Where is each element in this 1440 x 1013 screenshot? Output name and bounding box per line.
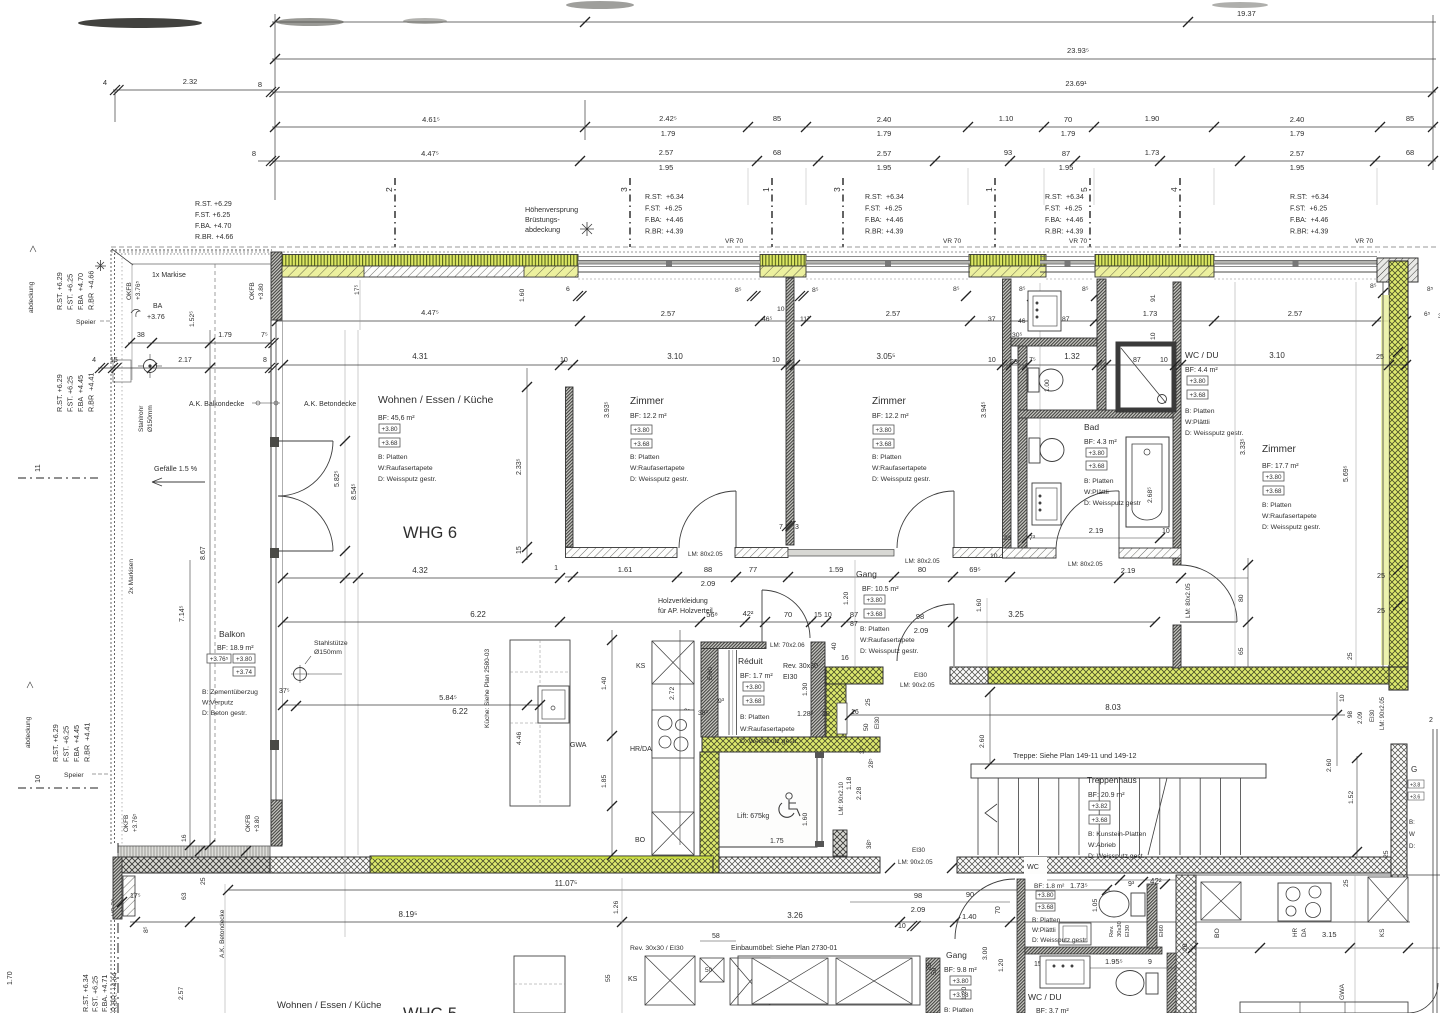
balcony vertical dim 8.67	[209, 330, 211, 845]
svg-text:25: 25	[1347, 652, 1354, 660]
svg-text:2.32: 2.32	[183, 77, 198, 86]
svg-text:10: 10	[1162, 528, 1170, 535]
svg-text:88: 88	[704, 565, 712, 574]
lower WC east walls	[1147, 884, 1157, 948]
svg-text:5.82⁵: 5.82⁵	[334, 470, 341, 487]
svg-text:R.BR +4.41: R.BR +4.41	[83, 723, 92, 762]
svg-text:87: 87	[850, 621, 858, 628]
svg-text:3.05⁵: 3.05⁵	[877, 352, 896, 361]
svg-text:8.67: 8.67	[200, 546, 207, 560]
svg-text:1.73: 1.73	[1145, 148, 1160, 157]
svg-text:70: 70	[784, 610, 792, 619]
svg-text:+3.6: +3.6	[1410, 795, 1420, 801]
living room dim 4.32	[283, 577, 560, 579]
svg-text:R.ST: +6.34: R.ST: +6.34	[1045, 194, 1084, 201]
window W2	[806, 256, 970, 258]
svg-text:1.30: 1.30	[802, 683, 809, 696]
Reduit inner partition	[728, 650, 730, 735]
svg-text:F.BA: +4.46: F.BA: +4.46	[645, 217, 683, 224]
svg-text:Holzverkleidung: Holzverkleidung	[658, 598, 708, 605]
svg-text:10: 10	[1150, 332, 1157, 340]
lift shaft	[719, 752, 817, 847]
svg-text:R.ST: +6.34: R.ST: +6.34	[865, 194, 904, 201]
svg-text:1.61: 1.61	[618, 565, 633, 574]
stair diagonal	[1148, 778, 1167, 855]
svg-text:BF: 1.7 m²: BF: 1.7 m²	[740, 673, 773, 680]
svg-text:2.57: 2.57	[877, 149, 892, 158]
svg-text:EI30: EI30	[1125, 925, 1131, 937]
svg-text:B: Platten: B: Platten	[860, 626, 890, 633]
exterior wall pier A (green hatched)	[274, 255, 578, 267]
balcony vertical dim 7.14	[189, 560, 191, 845]
svg-text:80: 80	[1238, 594, 1245, 602]
svg-text:46: 46	[1018, 318, 1026, 325]
svg-text:2.19: 2.19	[1121, 566, 1136, 575]
svg-text:1.05: 1.05	[1092, 899, 1099, 912]
svg-text:85: 85	[926, 962, 933, 970]
svg-text:KS: KS	[1379, 929, 1386, 937]
2.72 vertical dim	[679, 630, 681, 845]
svg-text:37⁵: 37⁵	[279, 688, 290, 695]
svg-text:40: 40	[831, 642, 838, 650]
svg-text:1.90: 1.90	[1145, 114, 1160, 123]
svg-text:1.75: 1.75	[770, 838, 784, 845]
Reduit east pier	[811, 642, 825, 737]
svg-text:F.BA +4.45: F.BA +4.45	[72, 725, 81, 762]
svg-text:19.37: 19.37	[1237, 9, 1256, 18]
svg-text:Brüstungs-: Brüstungs-	[525, 215, 560, 224]
left window band lines	[270, 320, 272, 845]
svg-text:HR/DA: HR/DA	[630, 746, 652, 753]
svg-text:8: 8	[258, 80, 262, 89]
svg-text:KS: KS	[636, 663, 646, 670]
lower kitchen dim line	[1190, 947, 1440, 949]
svg-text:R.ST. +6.29: R.ST. +6.29	[195, 201, 232, 208]
svg-text:87: 87	[1062, 149, 1070, 158]
grid axis lines	[394, 178, 396, 247]
svg-text:GWA: GWA	[1339, 984, 1346, 1000]
svg-text:F.ST: +6.25: F.ST: +6.25	[1045, 206, 1082, 213]
svg-text:+3.68: +3.68	[1190, 392, 1206, 399]
svg-text:R.ST: +6.34: R.ST: +6.34	[645, 194, 684, 201]
svg-text:3.15: 3.15	[1322, 930, 1337, 939]
Zimmer1 door arc	[735, 491, 737, 548]
svg-text:Einbaumöbel: Siehe Plan 2730-0: Einbaumöbel: Siehe Plan 2730-01	[731, 945, 837, 952]
svg-text:D: Weissputz gestr.: D: Weissputz gestr.	[872, 476, 931, 483]
svg-text:7.14⁵: 7.14⁵	[179, 605, 186, 622]
svg-text:90: 90	[966, 890, 974, 899]
svg-text:98: 98	[914, 891, 922, 900]
lower dim line 11.07	[228, 889, 1110, 891]
svg-text:R.ST. +6.34: R.ST. +6.34	[81, 974, 90, 1012]
bath south wall east part	[1119, 548, 1181, 558]
svg-text:+3.76⁵: +3.76⁵	[135, 281, 142, 300]
svg-text:W:Plättli: W:Plättli	[1084, 489, 1109, 496]
svg-text:B: Platten: B: Platten	[944, 1007, 974, 1013]
svg-text:Küche: Siehe Plan 2580-03: Küche: Siehe Plan 2580-03	[484, 648, 491, 728]
svg-text:63: 63	[181, 892, 188, 900]
svg-text:EI30: EI30	[875, 716, 881, 729]
svg-text:8.03: 8.03	[1105, 703, 1121, 712]
svg-text:1: 1	[554, 565, 558, 572]
svg-text:D: Weissputz gestr.: D: Weissputz gestr.	[378, 476, 437, 483]
svg-text:W:Raufasertapete: W:Raufasertapete	[1262, 513, 1317, 520]
svg-text:+3.68: +3.68	[1092, 817, 1108, 824]
lower stove	[1278, 883, 1331, 921]
svg-text:1.79: 1.79	[218, 332, 232, 339]
svg-text:7⁵: 7⁵	[261, 332, 268, 339]
svg-text:BA: BA	[153, 303, 163, 310]
svg-text:1.79: 1.79	[1061, 129, 1076, 138]
WC gap in band	[1024, 857, 1047, 874]
toilet 1	[1028, 368, 1039, 392]
svg-text:2.60: 2.60	[1326, 759, 1333, 772]
svg-text:38²: 38²	[698, 710, 709, 717]
svg-text:2.57: 2.57	[1290, 149, 1305, 158]
bath west wall V1	[1003, 279, 1012, 558]
svg-text:1.40: 1.40	[601, 677, 608, 690]
svg-text:B:: B:	[1409, 819, 1415, 826]
svg-text:+3.74: +3.74	[236, 669, 252, 676]
svg-text:LM: 90x2.05: LM: 90x2.05	[1380, 696, 1386, 730]
svg-text:LM: 90x2.05: LM: 90x2.05	[900, 682, 935, 689]
interior dashed line under windows	[578, 278, 760, 280]
svg-text:68: 68	[1406, 148, 1414, 157]
svg-text:8: 8	[263, 357, 267, 364]
balcony outer edge dotted	[110, 250, 112, 845]
svg-text:1.95: 1.95	[877, 163, 892, 172]
svg-text:1.59: 1.59	[829, 565, 844, 574]
toilet 2	[1029, 438, 1040, 463]
svg-text:3.94⁵: 3.94⁵	[981, 401, 988, 418]
svg-text:2.57: 2.57	[659, 148, 674, 157]
zimmer south dim chain y577	[565, 576, 1010, 578]
svg-text:B: Platten: B: Platten	[1032, 917, 1061, 924]
svg-text:1.95: 1.95	[1059, 163, 1074, 172]
svg-text:Rev.: Rev.	[1109, 925, 1115, 937]
right exterior wall (green cross-hatched)	[1389, 261, 1408, 667]
svg-text:LM: 90x2.10: LM: 90x2.10	[839, 781, 845, 815]
lower kitchen right counter	[1195, 876, 1197, 1013]
svg-text:Zimmer: Zimmer	[1262, 444, 1297, 455]
svg-text:HR: HR	[1292, 927, 1299, 937]
svg-text:D: Weissputz gestr.: D: Weissputz gestr.	[740, 738, 799, 745]
svg-text:2.40: 2.40	[877, 115, 892, 124]
svg-text:23: 23	[1010, 359, 1018, 366]
svg-text:Gang: Gang	[946, 950, 967, 960]
living room vertical dim lines 5.82/8.54	[344, 330, 346, 937]
svg-text:3: 3	[832, 187, 842, 192]
svg-text:WHG 5: WHG 5	[403, 1005, 457, 1013]
bath door arc	[1118, 491, 1120, 548]
roof overhang dashed lines	[111, 246, 1436, 248]
svg-text:5.84⁵: 5.84⁵	[439, 693, 457, 702]
svg-text:2.57: 2.57	[661, 309, 676, 318]
exterior wall pier C	[969, 255, 1046, 267]
svg-text:23.69¹: 23.69¹	[1065, 79, 1087, 88]
svg-text:4.32: 4.32	[412, 566, 428, 575]
svg-text:28⁵: 28⁵	[868, 758, 875, 768]
svg-text:LM: 80x2.05: LM: 80x2.05	[688, 551, 723, 558]
svg-text:1.73: 1.73	[1143, 309, 1158, 318]
svg-text:38: 38	[137, 332, 145, 339]
svg-text:1x Markise: 1x Markise	[152, 272, 186, 279]
svg-text:BF: 17.7 m²: BF: 17.7 m²	[1262, 463, 1299, 470]
svg-text:W:Raufasertapete: W:Raufasertapete	[872, 465, 927, 472]
svg-text:4.46: 4.46	[516, 732, 523, 745]
svg-text:B: Zementüberzug: B: Zementüberzug	[202, 689, 258, 696]
corridor glass partition	[788, 550, 894, 557]
svg-text:1.95: 1.95	[1290, 163, 1305, 172]
svg-text:+3.80: +3.80	[634, 427, 650, 434]
svg-text:10: 10	[772, 357, 780, 364]
property line bottom-left	[117, 843, 119, 1013]
lower WC small washbasin	[1059, 923, 1091, 945]
lower dim 98/2.09/90	[850, 901, 1010, 903]
svg-text:8⁵: 8⁵	[1427, 286, 1434, 293]
right wall corner at corridor	[1389, 667, 1408, 690]
svg-text:10: 10	[777, 306, 785, 313]
svg-text:F.ST. +6.25: F.ST. +6.25	[66, 274, 75, 310]
L-wall horizontal segment	[566, 548, 678, 558]
bath wall H2 (WC/DU - Bad)	[1018, 410, 1181, 418]
svg-text:A.K. Balkondecke: A.K. Balkondecke	[189, 401, 244, 408]
svg-text:Ø150mm: Ø150mm	[147, 405, 154, 432]
dimension line row 4.47	[258, 160, 1436, 162]
corner block top-right	[1377, 258, 1418, 282]
svg-text:Treppenhaus: Treppenhaus	[1087, 775, 1137, 785]
svg-text:2.57: 2.57	[886, 309, 901, 318]
svg-text:11: 11	[33, 464, 42, 472]
kitchen wall cabinets column	[651, 641, 653, 855]
svg-text:25: 25	[200, 877, 207, 885]
svg-text:Stahlrohr: Stahlrohr	[138, 405, 145, 432]
wheelchair symbol	[786, 793, 792, 799]
svg-text:2: 2	[384, 187, 394, 192]
svg-text:+3.80: +3.80	[382, 426, 398, 433]
svg-text:2.09: 2.09	[701, 579, 716, 588]
svg-text:+3.76: +3.76	[147, 314, 165, 321]
east zimmer door arc	[1180, 621, 1237, 623]
svg-text:F.BA: +4.46: F.BA: +4.46	[1045, 217, 1083, 224]
svg-text:BF: 1.8 m²: BF: 1.8 m²	[1034, 883, 1065, 890]
left wall bottom hatched segment	[271, 800, 282, 846]
svg-text:8.19⁵: 8.19⁵	[399, 910, 418, 919]
svg-text:BF: 18.9 m²: BF: 18.9 m²	[217, 645, 254, 652]
svg-text:11³: 11³	[800, 316, 810, 323]
lift door strip	[816, 758, 818, 842]
corridor south wall segment east (green)	[988, 667, 1389, 684]
oven BO cabinet	[652, 812, 694, 855]
svg-text:98: 98	[916, 612, 924, 621]
svg-text:+3.68: +3.68	[746, 698, 762, 705]
kitchen vertical dim	[611, 630, 613, 855]
svg-text:2.09: 2.09	[911, 905, 926, 914]
svg-text:2.72: 2.72	[669, 687, 676, 700]
balcony french door upper leaf	[278, 440, 333, 442]
svg-text:37: 37	[988, 316, 996, 323]
dim extension stubs above wall	[747, 168, 749, 205]
bottom wall band stairwell segment	[957, 857, 1392, 873]
left wall mullion 2	[270, 548, 279, 558]
svg-text:1.60: 1.60	[976, 599, 983, 612]
svg-text:1.20: 1.20	[961, 987, 968, 1000]
svg-text:W:Abrieb: W:Abrieb	[1088, 842, 1116, 849]
svg-text:10: 10	[824, 612, 832, 619]
balcony edge dotted lower	[110, 920, 112, 1013]
kitchen island	[510, 640, 570, 806]
lower kitchen island	[514, 956, 565, 1013]
svg-text:G: G	[1411, 765, 1417, 774]
svg-text:D: Weissputz gestr.: D: Weissputz gestr.	[860, 648, 919, 655]
lower KS cabinet right	[1368, 877, 1408, 922]
stove HR/DA	[652, 710, 694, 758]
svg-text:2.57: 2.57	[178, 987, 185, 1000]
svg-text:R.BR +4.66: R.BR +4.66	[87, 271, 96, 310]
svg-text:R.BR: +4.39: R.BR: +4.39	[1290, 229, 1328, 236]
svg-text:B: Platten: B: Platten	[1262, 502, 1292, 509]
svg-text:15: 15	[516, 546, 523, 554]
left wall mullion 3	[270, 740, 279, 750]
svg-text:25: 25	[865, 698, 872, 706]
dimension line row 4.61	[272, 126, 1436, 128]
svg-text:70: 70	[1064, 115, 1072, 124]
svg-text:EI30: EI30	[914, 672, 927, 679]
wall segment Zimmer1 south east part	[735, 548, 788, 558]
svg-text:4.47⁵: 4.47⁵	[421, 308, 439, 317]
L-wall vertical (living/Zimmer1)	[566, 387, 574, 547]
svg-text:Lift: 675kg: Lift: 675kg	[737, 813, 769, 820]
svg-text:EI60: EI60	[707, 667, 714, 680]
svg-text:+3.68: +3.68	[876, 441, 892, 448]
stair vertical dim 2.60	[989, 692, 991, 764]
svg-text:+3.80: +3.80	[867, 597, 883, 604]
svg-text:1.85: 1.85	[601, 775, 608, 788]
top dimension chain lines	[272, 21, 1436, 23]
svg-text:+3.80: +3.80	[254, 816, 261, 832]
svg-text:3.00: 3.00	[982, 947, 989, 960]
svg-text:87: 87	[850, 610, 858, 619]
balcony corner diagonal	[112, 249, 133, 265]
stair landing bar	[971, 764, 1266, 778]
bottom right door arc	[1408, 983, 1438, 1013]
svg-text:W:Raufasertapete: W:Raufasertapete	[630, 465, 685, 472]
svg-text:BO: BO	[1214, 928, 1221, 938]
svg-text:1.95: 1.95	[659, 163, 674, 172]
stairs dim 8.03	[850, 714, 1345, 716]
svg-text:46⁵: 46⁵	[762, 316, 773, 323]
svg-text:9: 9	[1148, 959, 1152, 966]
svg-text:+3.80: +3.80	[953, 978, 969, 985]
bath east wall V4	[1173, 282, 1181, 565]
svg-text:20: 20	[822, 711, 830, 718]
balcony top dim line 38/1.79	[128, 342, 272, 344]
svg-text:VR 70: VR 70	[1355, 238, 1373, 245]
svg-text:25: 25	[1343, 879, 1350, 887]
svg-text:LM: 70x2.06: LM: 70x2.06	[770, 642, 805, 649]
svg-text:87: 87	[1133, 357, 1141, 364]
svg-text:4: 4	[103, 78, 107, 87]
svg-text:1.60: 1.60	[519, 289, 526, 302]
bottom wall band dark segment	[120, 857, 270, 873]
svg-text:8.54⁵: 8.54⁵	[351, 483, 358, 500]
svg-text:3.33⁵: 3.33⁵	[1240, 438, 1247, 455]
stair direction arrow	[985, 804, 997, 822]
svg-text:2.57: 2.57	[1288, 309, 1303, 318]
svg-text:R.ST. +6.29: R.ST. +6.29	[55, 374, 64, 412]
washbasin WC/DU	[1028, 291, 1061, 331]
bath wall H1	[1011, 338, 1097, 346]
svg-text:23.93⁵: 23.93⁵	[1067, 46, 1089, 55]
svg-text:D: Weissputz gestr.: D: Weissputz gestr.	[1262, 524, 1321, 531]
svg-text:8⁵: 8⁵	[1370, 283, 1377, 290]
svg-text:2.19: 2.19	[1089, 526, 1104, 535]
svg-text:50: 50	[705, 967, 713, 974]
svg-text:1.70: 1.70	[7, 971, 14, 985]
corridor door arc (living)	[761, 590, 763, 642]
svg-text:VR 70: VR 70	[1069, 238, 1087, 245]
svg-text:8⁵: 8⁵	[1082, 286, 1089, 293]
svg-text:OKFB: OKFB	[245, 815, 252, 832]
svg-text:F.ST: +6.25: F.ST: +6.25	[865, 206, 902, 213]
stairwell east wall	[1391, 744, 1407, 920]
bottom wall band green segment	[370, 856, 713, 873]
svg-text:Speier: Speier	[64, 772, 84, 779]
svg-text:LM: 90x2.05: LM: 90x2.05	[898, 859, 933, 866]
svg-text:KS: KS	[628, 976, 638, 983]
svg-text:EI30: EI30	[912, 847, 925, 854]
svg-text:2.09: 2.09	[914, 626, 929, 635]
svg-text:1.26: 1.26	[613, 901, 620, 914]
svg-text:3.25: 3.25	[1008, 610, 1024, 619]
lower wall strip	[926, 958, 940, 1013]
entry door arc (Gang)	[897, 604, 954, 661]
svg-text:Treppe: Siehe Plan 149-11 und: Treppe: Siehe Plan 149-11 und 149-12	[1013, 751, 1136, 760]
Gang vertical dim line	[854, 560, 856, 666]
lower left hatched column	[123, 876, 135, 916]
svg-text:D: Weissputz gest.: D: Weissputz gest.	[1088, 853, 1145, 860]
Zimmer2 door arc	[953, 491, 955, 548]
markise small rect	[113, 360, 131, 382]
lower right kitchen island sliver	[1240, 1002, 1408, 1013]
svg-text:+3.68: +3.68	[634, 441, 650, 448]
svg-text:2.17: 2.17	[178, 357, 192, 364]
svg-text:Wohnen / Essen / Küche: Wohnen / Essen / Küche	[378, 394, 494, 406]
svg-text:6: 6	[566, 286, 570, 293]
svg-text:BF: 4.3 m²: BF: 4.3 m²	[1084, 439, 1117, 446]
lower WC door arc	[955, 879, 1015, 939]
svg-text:3.10: 3.10	[667, 352, 683, 361]
dimension line 2.32 left	[113, 89, 272, 91]
svg-text:+3.68: +3.68	[867, 611, 883, 618]
svg-text:2.42⁵: 2.42⁵	[659, 114, 677, 123]
svg-text:4: 4	[1169, 187, 1179, 192]
section mark 11	[18, 477, 102, 479]
kitchen dim 5.84/6.22	[283, 704, 540, 706]
svg-text:R.BR: +4.39: R.BR: +4.39	[645, 229, 683, 236]
svg-text:1.20: 1.20	[843, 592, 850, 605]
svg-text:7³: 7³	[1029, 535, 1036, 542]
svg-text:15: 15	[814, 612, 822, 619]
svg-text:4: 4	[92, 357, 96, 364]
svg-text:25: 25	[1377, 571, 1385, 580]
wall between Zimmer1 and Zimmer2	[786, 278, 794, 545]
svg-text:85: 85	[1406, 114, 1414, 123]
svg-text:W:Verputz: W:Verputz	[202, 700, 234, 707]
svg-text:F.ST. +6.25: F.ST. +6.25	[91, 976, 100, 1012]
svg-text:69⁵: 69⁵	[969, 565, 980, 574]
svg-text:B: Kunstein-Platten: B: Kunstein-Platten	[1088, 831, 1146, 838]
